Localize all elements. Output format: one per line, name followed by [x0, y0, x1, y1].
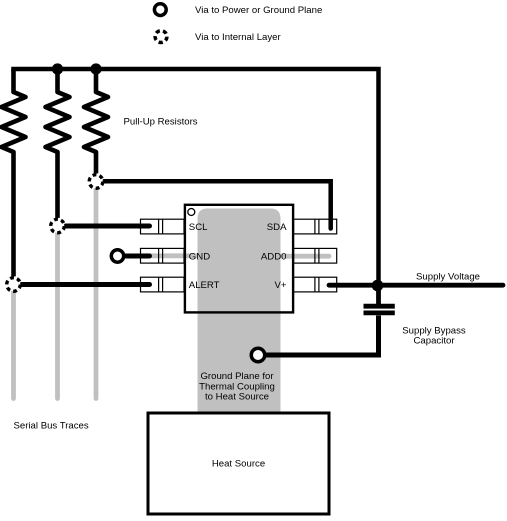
via: GND to ground plane (solid ring) — [111, 250, 123, 262]
junction: R3 to supply rail — [90, 63, 101, 74]
wire: via1 to ALERT pad — [22, 282, 150, 287]
pad: ALERT (pin 3) — [141, 277, 185, 292]
resistor R3 (pull-up, right) — [84, 69, 108, 173]
junction: R2 to supply rail — [52, 63, 63, 74]
svg-text:to Heat Source: to Heat Source — [205, 392, 269, 403]
capacitor C1 (supply bypass) plate 1 — [364, 304, 395, 309]
wire: junction to cap top plate — [376, 286, 381, 305]
heat source box — [148, 413, 329, 514]
via 2 to internal layer (dashed, SCL) — [51, 219, 65, 233]
svg-text:Capacitor: Capacitor — [413, 336, 455, 347]
wire: via3 to SDA pad — [104, 181, 331, 228]
ground plane for thermal coupling (gray copper pour under U1 to heat source) — [198, 209, 281, 413]
gray trace: ADD0 net stub — [272, 254, 329, 259]
legend via symbol: via to internal layer (dashed) — [155, 31, 167, 43]
svg-text:Heat Source: Heat Source — [212, 459, 265, 470]
svg-text:Via to Power or Ground Plane: Via to Power or Ground Plane — [195, 5, 322, 16]
wire: V+ pad to supply voltage rail — [329, 283, 503, 288]
pad: ADD0 (pin 5) — [294, 248, 337, 263]
via: bypass cap to ground plane (solid ring) — [251, 348, 265, 362]
legend via symbol: via to power or ground plane — [154, 4, 166, 16]
svg-text:V+: V+ — [274, 280, 286, 291]
wire: via2 to SCL pad — [66, 224, 150, 229]
svg-text:Via to Internal Layer: Via to Internal Layer — [195, 32, 281, 43]
serial bus trace 2 (SCL, gray) — [55, 226, 60, 399]
via 3 to internal layer (dashed, SDA) — [89, 175, 103, 189]
serial bus trace 3 (SDA, gray) — [94, 182, 99, 399]
via 1 to internal layer (dashed, ALERT) — [7, 278, 21, 292]
resistor R1 (pull-up, left) — [2, 69, 26, 276]
svg-text:Pull-Up Resistors: Pull-Up Resistors — [124, 117, 198, 128]
wire: cap to ground plane via — [265, 316, 379, 356]
svg-text:ALERT: ALERT — [189, 280, 220, 291]
svg-text:SDA: SDA — [267, 222, 287, 233]
svg-text:SCL: SCL — [189, 222, 208, 233]
junction: V+ / bypass cap node — [372, 280, 384, 292]
pad: SDA (pin 6) — [294, 219, 337, 234]
serial bus trace 1 (ALERT, gray) — [11, 285, 16, 399]
pad: SCL (pin 1) — [141, 219, 185, 234]
pad: GND (pin 2) — [141, 248, 185, 263]
wire: supply rail top (pull-ups to V+ column) — [14, 69, 379, 286]
svg-text:Serial Bus Traces: Serial Bus Traces — [14, 421, 89, 432]
svg-text:Supply Voltage: Supply Voltage — [416, 272, 480, 283]
IC U1 body — [185, 205, 293, 313]
svg-text:ADD0: ADD0 — [261, 252, 287, 263]
svg-text:GND: GND — [189, 252, 210, 263]
pad: V+ (pin 4) — [294, 277, 337, 292]
capacitor C1 plate 2 — [364, 310, 395, 315]
gray trace: GND net into left pad — [141, 253, 211, 258]
IC U1 pin-1 marker — [188, 209, 195, 216]
wire: GND via to GND pad — [126, 254, 150, 259]
resistor R2 (pull-up, middle) — [46, 69, 70, 218]
